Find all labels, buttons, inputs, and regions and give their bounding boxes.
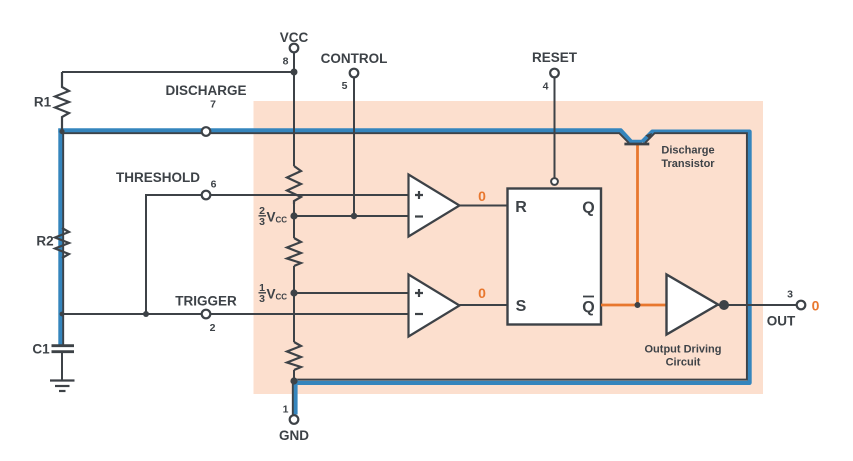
- svg-text:R2: R2: [36, 234, 53, 249]
- node: divider bottom junction: [290, 377, 297, 384]
- svg-text:DISCHARGE: DISCHARGE: [165, 83, 246, 98]
- svg-text:VCC: VCC: [280, 30, 309, 45]
- svg-text:V: V: [267, 209, 276, 224]
- node: 1/3 Vcc: [290, 289, 297, 296]
- svg-text:0: 0: [478, 188, 486, 204]
- wire: C1 bottom lead: [61, 353, 63, 380]
- wire (blue): transistor emitter to GND rail (right side and bottom): [293, 132, 750, 383]
- terminal: THRESHOLD pin 6: [116, 170, 217, 199]
- label: 1/3 Vcc: [259, 282, 288, 305]
- svg-text:C1: C1: [32, 342, 50, 357]
- svg-text:1: 1: [283, 404, 289, 416]
- node: reset inverting bubble: [551, 178, 558, 185]
- node: Q-bar branch junction: [635, 302, 641, 308]
- svg-text:4: 4: [543, 81, 549, 93]
- svg-text:Discharge: Discharge: [661, 145, 714, 157]
- resistor R1: [34, 72, 69, 132]
- wire: TRIGGER line to comparator 2 inverting input: [62, 313, 409, 315]
- resistor: divider top (VCC to 2/3 Vcc): [287, 166, 301, 204]
- terminal: VCC pin 8: [280, 30, 309, 68]
- node: pin 7 discharge junction on left rail: [59, 129, 64, 134]
- wire: buffer output to OUT pin 3: [718, 304, 797, 306]
- wire (blue): discharge path left rail (C1 top through R2 to pin 7 node): [60, 129, 63, 346]
- svg-text:V: V: [267, 286, 276, 301]
- svg-text:Circuit: Circuit: [666, 357, 701, 369]
- svg-text:S: S: [516, 298, 527, 315]
- wire: CONTROL pin 5 lead: [353, 77, 355, 216]
- svg-text:CC: CC: [276, 293, 288, 302]
- svg-text:OUT: OUT: [767, 314, 796, 329]
- wire: RESET pin 4 lead: [554, 77, 556, 178]
- svg-text:0: 0: [478, 285, 486, 301]
- resistor: divider middle (2/3 Vcc to 1/3 Vcc): [287, 238, 301, 266]
- svg-text:3: 3: [259, 216, 265, 228]
- terminal: DISCHARGE pin 7: [165, 83, 246, 136]
- svg-text:R1: R1: [34, 95, 52, 110]
- svg-text:0: 0: [812, 298, 820, 314]
- svg-text:Transistor: Transistor: [661, 158, 715, 170]
- transistor Q1 (discharge transistor) base bar and emitter arrow: [624, 133, 652, 144]
- wire: 1/3 Vcc reference to comparator 2 non-inverting input: [294, 292, 409, 294]
- wire: VCC rail vertical (pin 8 down into IC): [293, 52, 295, 381]
- wire: comparator 2 output to latch S: [460, 304, 508, 306]
- svg-text:5: 5: [342, 80, 348, 92]
- op-amp comparator 1 (threshold): [409, 175, 460, 237]
- svg-text:3: 3: [259, 293, 265, 305]
- svg-text:Q: Q: [582, 200, 594, 217]
- node: threshold/trigger junction: [143, 311, 149, 317]
- svg-text:2: 2: [210, 322, 216, 334]
- svg-text:6: 6: [211, 179, 217, 191]
- terminal: CONTROL pin 5: [321, 51, 388, 92]
- node: trigger junction on left rail: [60, 312, 65, 317]
- wire (orange): Q-bar to discharge transistor base: [636, 145, 639, 306]
- node: output junction dot: [719, 300, 729, 310]
- node: 2/3 Vcc: [290, 212, 297, 219]
- svg-text:CONTROL: CONTROL: [321, 51, 388, 66]
- svg-text:8: 8: [283, 56, 289, 68]
- SR latch U1: [508, 189, 602, 325]
- svg-text:GND: GND: [279, 428, 309, 443]
- svg-text:3: 3: [787, 289, 793, 301]
- terminal: TRIGGER pin 2: [175, 294, 237, 335]
- svg-text:TRIGGER: TRIGGER: [175, 294, 237, 309]
- terminal: GND pin 1: [279, 404, 309, 444]
- svg-text:R: R: [515, 199, 527, 216]
- label: 2/3 Vcc: [259, 205, 288, 228]
- svg-text:CC: CC: [276, 216, 288, 225]
- svg-text:THRESHOLD: THRESHOLD: [116, 170, 200, 185]
- wire: THRESHOLD line to comparator 1 non-inverting input: [146, 195, 409, 314]
- label: Discharge Transistor: [661, 145, 715, 171]
- op-amp U3 output driving circuit buffer: [645, 275, 722, 369]
- wire: VCC rail top horizontal to R1: [62, 71, 294, 73]
- svg-text:Output Driving: Output Driving: [645, 344, 722, 356]
- resistor R2: [36, 228, 69, 258]
- ground: [50, 381, 75, 392]
- svg-text:RESET: RESET: [532, 50, 578, 65]
- svg-text:Q: Q: [582, 299, 594, 316]
- node: VCC junction (pin 8): [291, 69, 298, 76]
- terminal: RESET pin 4: [532, 50, 578, 93]
- wire (blue): discharge line from pin 7 node to transistor collector: [58, 130, 642, 143]
- op-amp comparator 2 (trigger): [409, 275, 460, 337]
- resistor: divider bottom (1/3 Vcc to GND): [287, 342, 301, 370]
- wire (blue): GND lead to pin 1: [293, 379, 296, 415]
- terminal: OUT pin 3: [767, 289, 806, 329]
- wire (orange): latch Q-bar output to output driver: [601, 304, 667, 307]
- wire: comparator 1 output to latch R: [460, 205, 508, 207]
- 555 timer IC body (shaded region): [254, 101, 764, 394]
- capacitor C1: [32, 342, 74, 357]
- svg-text:7: 7: [210, 99, 216, 111]
- node: control voltage junction: [351, 213, 357, 219]
- wire: 2/3 Vcc reference to comparator 1 inverting input: [294, 215, 409, 217]
